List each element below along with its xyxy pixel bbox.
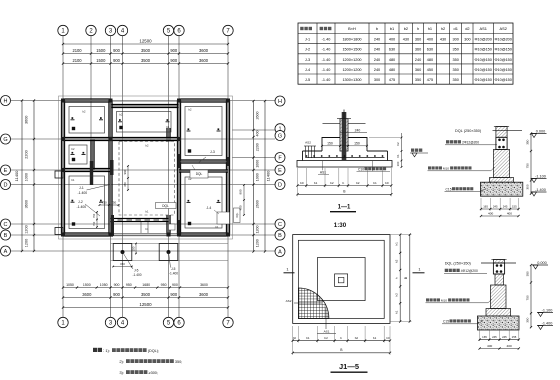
section 1-1 label AS1 xyxy=(318,161,329,175)
bottom dims 165 245 245 155 (bottom detail) xyxy=(479,330,520,341)
top dimension row2 2100 1500 900 3500 900 3600 xyxy=(62,58,229,65)
section 1-1 left rebar hooks xyxy=(304,146,316,158)
svg-text:900: 900 xyxy=(170,58,178,63)
svg-text:400: 400 xyxy=(488,211,493,215)
exterior wall bottom right segment xyxy=(179,233,228,236)
svg-text:AS2: AS2 xyxy=(305,141,311,145)
svg-text:b0: b0 xyxy=(300,181,304,185)
svg-text:b1: b1 xyxy=(373,336,377,340)
svg-text:350: 350 xyxy=(525,139,529,144)
right dimension segments 2600 400 2300 1200 1000 2600 1200 1300 xyxy=(252,100,259,253)
svg-text:-1.40: -1.40 xyxy=(322,48,331,52)
cushion note C15 (top detail) xyxy=(445,187,487,191)
svg-text:DQL: DQL xyxy=(236,212,239,218)
svg-text:J1—5: J1—5 xyxy=(339,362,359,371)
svg-text:M10: M10 xyxy=(441,299,447,303)
svg-text:Φ10@150: Φ10@150 xyxy=(474,58,491,62)
svg-text:400: 400 xyxy=(427,38,433,42)
axis bubbles left H G E D C B A xyxy=(1,96,11,257)
svg-text:d2: d2 xyxy=(465,26,469,31)
svg-text:450: 450 xyxy=(123,182,127,187)
svg-text:3600: 3600 xyxy=(199,48,209,53)
elevation 0.000 (top detail) xyxy=(531,129,547,137)
elevation -1.400 (bottom detail) xyxy=(537,321,553,329)
svg-text:750: 750 xyxy=(525,163,529,168)
svg-text:3600: 3600 xyxy=(25,116,29,124)
svg-text:3):: 3): xyxy=(119,370,124,375)
svg-text:-1.400: -1.400 xyxy=(169,272,178,276)
svg-text:3500: 3500 xyxy=(141,58,151,63)
bottom dims 165 245 245 155 (top detail) xyxy=(480,198,520,211)
DQL detail wall stub above beam xyxy=(494,127,509,138)
svg-text:d1: d1 xyxy=(454,26,458,31)
svg-text:Φ10@150: Φ10@150 xyxy=(494,78,511,82)
svg-text:430: 430 xyxy=(403,38,409,42)
svg-text:1500×1500: 1500×1500 xyxy=(342,48,361,52)
svg-text:-1.100: -1.100 xyxy=(542,308,553,312)
svg-text:b1: b1 xyxy=(390,26,394,31)
svg-text:J-5: J-5 xyxy=(305,78,310,82)
svg-text:1050: 1050 xyxy=(66,283,74,287)
svg-text:450: 450 xyxy=(239,205,243,210)
svg-text:630: 630 xyxy=(389,48,395,52)
interior wall axis 2 vertical small room xyxy=(91,139,94,170)
svg-text:1800×1800: 1800×1800 xyxy=(342,38,361,42)
svg-text:-1.40: -1.40 xyxy=(322,78,331,82)
interior wall axis 3 vertical xyxy=(109,101,112,235)
section 1-1 step tier2 xyxy=(322,138,367,152)
svg-text:2Φ12@200: 2Φ12@200 xyxy=(462,141,479,145)
junction pier right wall bottom xyxy=(177,220,180,233)
axis bubbles top 1-7 xyxy=(58,25,233,35)
left dimension segments 3600 2200 1000 3600 1200 1200 xyxy=(25,99,36,252)
svg-text:165: 165 xyxy=(482,335,487,339)
svg-text:750: 750 xyxy=(92,213,96,218)
svg-text:350: 350 xyxy=(453,58,459,62)
svg-text:150: 150 xyxy=(327,141,333,145)
svg-text:Φ10@200: Φ10@200 xyxy=(474,38,491,42)
svg-text:480: 480 xyxy=(389,68,395,72)
J1-5 second square xyxy=(298,240,384,318)
svg-text:150: 150 xyxy=(120,262,125,266)
footing outline small room xyxy=(69,145,87,164)
svg-text:3600: 3600 xyxy=(200,283,208,287)
svg-text:h1: h1 xyxy=(394,310,398,314)
svg-text:990: 990 xyxy=(239,189,243,194)
svg-text:DQL (250×350): DQL (250×350) xyxy=(445,262,472,266)
svg-text:245: 245 xyxy=(503,204,508,208)
svg-text:990: 990 xyxy=(123,169,127,174)
svg-text:Φ10@150: Φ10@150 xyxy=(474,68,491,72)
svg-text:2100: 2100 xyxy=(72,48,82,53)
elevation -1.100 (bottom detail) xyxy=(537,308,553,316)
svg-text:245: 245 xyxy=(492,335,497,339)
svg-text:1—1: 1—1 xyxy=(338,205,351,211)
svg-text:360: 360 xyxy=(415,48,421,52)
svg-text:1000: 1000 xyxy=(256,173,260,181)
svg-text:2600: 2600 xyxy=(256,200,260,208)
porch column pad right J-5 xyxy=(159,244,178,276)
exterior wall bottom left segment xyxy=(63,233,113,236)
svg-text:430: 430 xyxy=(440,38,446,42)
mini dim 750 vertical left room xyxy=(92,211,98,228)
svg-text:240: 240 xyxy=(415,58,421,62)
svg-text:240: 240 xyxy=(374,48,380,52)
svg-text:245: 245 xyxy=(493,204,498,208)
DQL brick foundation wall hatched (bottom) xyxy=(486,285,511,316)
J1-5 title xyxy=(331,362,368,372)
section 1-1 step dim 150 150 xyxy=(321,141,368,146)
svg-text:400: 400 xyxy=(507,211,512,215)
DQL cushion concrete (bottom) xyxy=(478,316,520,330)
svg-text:J-5: J-5 xyxy=(134,269,139,273)
mini dim 750 750 xyxy=(99,200,120,206)
DQL ring beam section with cross (bottom) xyxy=(493,263,504,274)
bottom dimension row 1050 1500 1050 900 950 1680 950 900 3600 xyxy=(62,283,229,289)
svg-text:400: 400 xyxy=(389,38,395,42)
svg-text:b2: b2 xyxy=(324,336,328,340)
label DQL box in plan xyxy=(156,203,177,209)
svg-text:2):: 2): xyxy=(119,359,124,364)
svg-text:1200: 1200 xyxy=(256,239,260,247)
svg-text:900: 900 xyxy=(113,48,121,53)
elevation 0.000 (bottom detail) xyxy=(532,261,548,269)
svg-text:h2: h2 xyxy=(441,26,445,31)
svg-text:E: E xyxy=(4,168,8,174)
svg-text:DQL: DQL xyxy=(162,204,169,208)
svg-text:b1: b1 xyxy=(306,336,310,340)
J1-5 center column square xyxy=(335,274,348,287)
label J-2 -1.400 xyxy=(77,200,101,216)
axis bubbles right xyxy=(275,96,285,257)
svg-text:h: h xyxy=(394,277,398,279)
svg-text:G: G xyxy=(278,134,282,140)
section 1-1 wall break lines xyxy=(323,123,366,125)
J1-5 right dims h1 h2 h h2 h1 xyxy=(390,234,412,323)
svg-text:0.000: 0.000 xyxy=(536,129,546,133)
svg-text:1200×1200: 1200×1200 xyxy=(342,58,361,62)
right dims 350 750 300 (top detail) xyxy=(525,132,532,194)
svg-text:3500: 3500 xyxy=(141,292,151,297)
svg-text:480: 480 xyxy=(427,58,433,62)
svg-text:360: 360 xyxy=(415,38,421,42)
svg-text:b2: b2 xyxy=(330,181,334,185)
svg-text:2600: 2600 xyxy=(256,112,260,120)
svg-text:1200: 1200 xyxy=(25,239,29,247)
porch pad1 mini dims 150 xyxy=(112,243,136,268)
svg-text:-1.400: -1.400 xyxy=(78,191,88,195)
section 1-1 label C10 cushion text xyxy=(357,161,391,171)
svg-text:h1: h1 xyxy=(428,26,432,31)
svg-text:4Φ12@200: 4Φ12@200 xyxy=(461,269,478,273)
svg-text:b0: b0 xyxy=(385,181,389,185)
J1-5 label AS1 xyxy=(317,308,336,334)
DQL detail wall stub above beam (bottom) xyxy=(491,260,506,264)
svg-text:h: h xyxy=(417,26,419,31)
J1-5 middle square xyxy=(318,258,366,301)
svg-text:3500: 3500 xyxy=(141,48,151,53)
svg-text:475: 475 xyxy=(389,78,395,82)
bottom dimension total 12500 xyxy=(62,302,229,309)
label J-3 with leader xyxy=(198,150,215,163)
svg-text:1050: 1050 xyxy=(100,283,108,287)
svg-text:b2: b2 xyxy=(356,181,360,185)
section 1-1 total width B xyxy=(296,187,392,196)
outer footing edge line xyxy=(59,96,233,239)
notes line 3 xyxy=(119,370,158,375)
svg-text:b0: b0 xyxy=(293,336,296,340)
svg-text:H: H xyxy=(278,99,282,105)
svg-text:1000: 1000 xyxy=(25,173,29,181)
bottom dimension row 3600 900 3500 900 3600 xyxy=(62,292,229,299)
J1-5 bottom total B xyxy=(292,343,392,356)
svg-text:Φ10@200: Φ10@200 xyxy=(494,38,511,42)
svg-text:B: B xyxy=(278,233,282,239)
svg-text:2200: 2200 xyxy=(256,143,260,151)
svg-text:DQL (250×350): DQL (250×350) xyxy=(455,129,482,133)
elevation -1.400 (top detail) xyxy=(531,188,547,196)
notes shuoming xyxy=(93,348,159,353)
svg-text:Φ10@150: Φ10@150 xyxy=(474,78,491,82)
J1-5 outer square xyxy=(293,235,390,324)
svg-text:A: A xyxy=(4,249,8,255)
svg-text:0.000: 0.000 xyxy=(537,261,547,265)
svg-text:h1: h1 xyxy=(394,242,398,246)
svg-text:165: 165 xyxy=(483,204,488,208)
svg-text:950: 950 xyxy=(126,283,132,287)
J1-5 bottom dims b0 b1 b2 b b2 b1 b0 xyxy=(292,326,392,343)
horizontal grid lines axes A-H xyxy=(11,101,275,252)
svg-text:J-3: J-3 xyxy=(210,150,215,154)
svg-text:J-2: J-2 xyxy=(305,48,310,52)
svg-text:b2: b2 xyxy=(355,336,359,340)
DQL brick foundation wall hatched xyxy=(490,150,514,183)
svg-text:1:30: 1:30 xyxy=(334,222,347,229)
footing outline right middle room xyxy=(185,177,222,229)
notes line 2 xyxy=(119,359,182,364)
J1-5 label AS2 xyxy=(286,299,322,303)
svg-text:3600: 3600 xyxy=(199,292,209,297)
svg-text:-1.400: -1.400 xyxy=(77,205,87,209)
bottom dims 400 400 (bottom detail) xyxy=(479,344,520,350)
svg-text:240: 240 xyxy=(374,68,380,72)
svg-text:900: 900 xyxy=(170,48,178,53)
section 1-1 footing slab xyxy=(303,151,388,161)
svg-text:h2: h2 xyxy=(396,142,400,146)
DQL cushion concrete xyxy=(481,182,523,196)
svg-text:240: 240 xyxy=(374,38,380,42)
svg-text:E: E xyxy=(278,168,282,174)
svg-text:-1.40: -1.40 xyxy=(322,58,331,62)
svg-text:DQL: DQL xyxy=(196,172,203,176)
svg-text:300: 300 xyxy=(374,78,380,82)
masonry note M10 MU15 (top detail) xyxy=(428,166,495,170)
svg-text:C15: C15 xyxy=(443,320,449,324)
vertical grid lines axes 1-7 xyxy=(63,36,228,318)
svg-text:H: H xyxy=(4,99,8,105)
svg-text:350: 350 xyxy=(453,68,459,72)
svg-text:240: 240 xyxy=(355,128,361,132)
svg-text:Φ10@150: Φ10@150 xyxy=(494,68,511,72)
interior wall E horizontal xyxy=(63,168,111,171)
svg-text:900: 900 xyxy=(113,58,121,63)
svg-text:400: 400 xyxy=(256,131,260,137)
J1-5 section cut mark left xyxy=(284,267,295,273)
interior wall axis 5 vertical top segment xyxy=(167,128,170,142)
axis bubbles bottom xyxy=(58,317,233,327)
rebar note 2phi12@200 (top detail) xyxy=(445,140,497,145)
svg-text:900: 900 xyxy=(113,292,121,297)
svg-text:350: 350 xyxy=(525,271,529,276)
exterior wall top right segment xyxy=(179,99,228,102)
svg-text:AS1: AS1 xyxy=(324,330,330,334)
svg-text:1680: 1680 xyxy=(142,283,150,287)
svg-text:630: 630 xyxy=(427,48,433,52)
porch slab edge lines xyxy=(111,244,229,261)
svg-text:1500: 1500 xyxy=(96,58,106,63)
svg-text:AS2: AS2 xyxy=(500,26,507,31)
svg-text:300: 300 xyxy=(525,317,529,322)
svg-text:350: 350 xyxy=(453,48,459,52)
svg-text:1):: 1): xyxy=(105,348,110,353)
svg-text:12500: 12500 xyxy=(139,38,152,43)
right dims 350 750 300 (bottom detail) xyxy=(525,264,532,328)
dark pier at axis3 bottom xyxy=(111,215,114,236)
interior wall right room bottom F xyxy=(179,160,228,163)
svg-text:B: B xyxy=(4,233,8,239)
svg-text:A: A xyxy=(278,250,282,256)
junction pier far right xyxy=(226,157,229,166)
exterior wall top left segment xyxy=(63,99,111,102)
DQL label (top detail) xyxy=(455,129,522,133)
foundation table xyxy=(298,23,513,84)
section 1-1 label AS2 xyxy=(305,141,311,145)
bottom dims 400 400 (top detail) xyxy=(480,211,520,217)
porch threshold thin lines xyxy=(113,233,179,236)
svg-text:b0: b0 xyxy=(387,336,390,340)
svg-text:J-3: J-3 xyxy=(305,58,310,62)
dark pier at axis2 xyxy=(90,161,93,185)
svg-text:155: 155 xyxy=(512,335,517,339)
footing outline top right room xyxy=(185,107,222,156)
svg-text::: : xyxy=(103,348,104,353)
svg-text:B×H: B×H xyxy=(348,26,356,31)
svg-text:-1.40: -1.40 xyxy=(322,38,331,42)
svg-text:1000: 1000 xyxy=(256,160,260,168)
svg-text:400: 400 xyxy=(507,344,512,348)
label DQL box right column xyxy=(190,165,208,178)
svg-text:D: D xyxy=(4,183,8,189)
section 1-1 cushion xyxy=(297,161,392,168)
svg-text:450: 450 xyxy=(427,68,433,72)
svg-text:300: 300 xyxy=(453,38,459,42)
stair lines bottom strip xyxy=(141,222,148,234)
svg-text:J-2: J-2 xyxy=(78,200,83,204)
svg-text:h1: h1 xyxy=(396,154,400,158)
svg-text:1500: 1500 xyxy=(83,283,91,287)
svg-text:AS1: AS1 xyxy=(480,26,487,31)
svg-text:350;: 350; xyxy=(175,360,182,364)
svg-text:D: D xyxy=(278,183,282,189)
dark pier axis3 middle xyxy=(110,160,114,175)
interior wall axis 6 vertical xyxy=(177,101,180,235)
svg-text:-1.400: -1.400 xyxy=(542,321,553,325)
masonry note M10 MU15 (bottom detail) xyxy=(426,298,493,302)
svg-text:Φ10@150: Φ10@150 xyxy=(494,48,511,52)
exterior wall top middle segment xyxy=(111,104,180,107)
svg-text:-1.100: -1.100 xyxy=(535,174,546,178)
cushion note C15 (bottom detail) xyxy=(442,319,483,323)
left dimension total 11400 xyxy=(14,99,23,252)
svg-text:11400: 11400 xyxy=(14,170,19,182)
exterior wall left xyxy=(61,101,64,235)
section 1-1 wall hatched xyxy=(337,110,351,161)
section 1-1 elevation mark di biao gao xyxy=(410,149,428,157)
svg-text:b: b xyxy=(343,181,345,185)
svg-text:J-4: J-4 xyxy=(305,68,310,72)
mini dim 990 vertical right xyxy=(239,184,245,216)
svg-text:360: 360 xyxy=(415,68,421,72)
svg-text:Φ10@150: Φ10@150 xyxy=(474,48,491,52)
svg-text:-1.400: -1.400 xyxy=(133,273,142,277)
svg-text:300: 300 xyxy=(525,184,529,189)
svg-text:M10: M10 xyxy=(443,167,449,171)
elevation -1.100 (top detail) xyxy=(531,174,547,182)
svg-text:245: 245 xyxy=(502,335,507,339)
interior wall G horizontal xyxy=(63,137,179,140)
interior wall axis 5 vertical bottom segment xyxy=(167,215,170,235)
DQL ring beam section with rebar dots xyxy=(496,137,507,149)
interior wall right room top E xyxy=(179,170,228,172)
svg-text:900: 900 xyxy=(172,283,178,287)
porch bump wall left upper xyxy=(55,171,63,178)
svg-text:300: 300 xyxy=(464,38,470,42)
mini dim 990 450 vertical center room xyxy=(123,144,149,191)
right dimension total 11400 xyxy=(264,100,271,253)
svg-text:750: 750 xyxy=(111,200,116,204)
rebar note 2phi12@200 (bottom detail) xyxy=(444,269,487,274)
label J-1 -1.400 xyxy=(78,185,111,196)
top dimension row 2100 1500 900 3500 900 3600 xyxy=(62,48,229,55)
svg-text:1200: 1200 xyxy=(256,226,260,234)
interior wall center room bottom xyxy=(111,210,176,232)
svg-text:150: 150 xyxy=(354,141,360,145)
svg-text:(DQL);: (DQL); xyxy=(148,349,159,353)
svg-text:3600: 3600 xyxy=(199,58,209,63)
svg-text:900: 900 xyxy=(114,283,120,287)
svg-text:480: 480 xyxy=(389,58,395,62)
section 1-1 title xyxy=(330,205,356,230)
svg-text:475: 475 xyxy=(427,78,433,82)
svg-text:J-5: J-5 xyxy=(171,267,176,271)
svg-text:155: 155 xyxy=(512,204,517,208)
svg-text:750: 750 xyxy=(102,200,107,204)
svg-text:1300×1300: 1300×1300 xyxy=(342,78,361,82)
svg-text:11400: 11400 xyxy=(266,170,271,182)
svg-text:h2: h2 xyxy=(394,293,398,297)
svg-text:C15: C15 xyxy=(446,187,452,191)
section 1-1 right dims h2 h1 100 xyxy=(369,133,402,168)
svg-text:350: 350 xyxy=(415,78,421,82)
DQL label (bottom detail) xyxy=(445,262,516,266)
svg-text:AS2: AS2 xyxy=(286,299,292,303)
svg-text:900: 900 xyxy=(170,292,178,297)
porch column pad left J-5 xyxy=(113,244,142,278)
svg-text:400: 400 xyxy=(487,344,492,348)
svg-text:12500: 12500 xyxy=(139,302,152,307)
J1-5 right total B xyxy=(404,234,411,323)
svg-text:2200: 2200 xyxy=(25,150,29,158)
